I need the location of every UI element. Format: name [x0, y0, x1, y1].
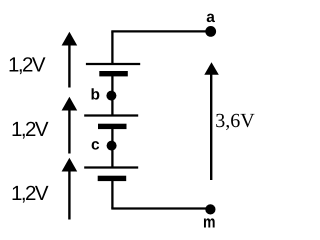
wire (battery B1 to node b)	[111, 76, 113, 96]
battery B2 (1,2V cell): long plate	[84, 114, 138, 116]
battery B1 (1,2V cell): short thick plate	[99, 71, 128, 76]
svg-text:1,2V: 1,2V	[11, 182, 49, 205]
battery B2 (1,2V cell): short thick plate	[98, 124, 127, 129]
node b (junction dot)	[106, 91, 116, 101]
node a (terminal dot)	[205, 26, 216, 37]
arrow (3,6V total voltage, node m to node a)	[204, 62, 219, 180]
battery B3 (1,2V cell): short thick plate	[98, 176, 127, 181]
svg-text:c: c	[91, 137, 100, 154]
svg-text:1,2V: 1,2V	[11, 118, 49, 141]
wire (bottom horizontal, battery stack to node m)	[111, 207, 210, 209]
node c (junction dot)	[107, 141, 117, 151]
arrow (1,2V cell 1 voltage direction)	[62, 32, 78, 88]
wire (node b to battery B2)	[111, 96, 113, 116]
wire (battery B3 down to bottom rail)	[111, 181, 113, 209]
arrow (1,2V cell 3 voltage direction)	[62, 158, 78, 220]
battery B1 (1,2V cell): long plate	[86, 63, 140, 65]
wire (battery B2 to node c)	[111, 129, 113, 146]
wire (top horizontal, battery stack to node a)	[111, 30, 210, 32]
battery B3 (1,2V cell): long plate	[84, 166, 138, 168]
wire (node c to battery B3)	[111, 146, 113, 168]
svg-text:1,2V: 1,2V	[8, 53, 46, 76]
node m (terminal dot)	[205, 204, 215, 214]
svg-text:m: m	[203, 212, 216, 231]
wire (vertical, node a branch down to battery B1)	[111, 31, 113, 64]
arrow (1,2V cell 2 voltage direction)	[62, 97, 78, 154]
svg-text:3,6V: 3,6V	[215, 110, 255, 132]
svg-text:b: b	[91, 87, 100, 104]
svg-text:a: a	[206, 9, 215, 26]
